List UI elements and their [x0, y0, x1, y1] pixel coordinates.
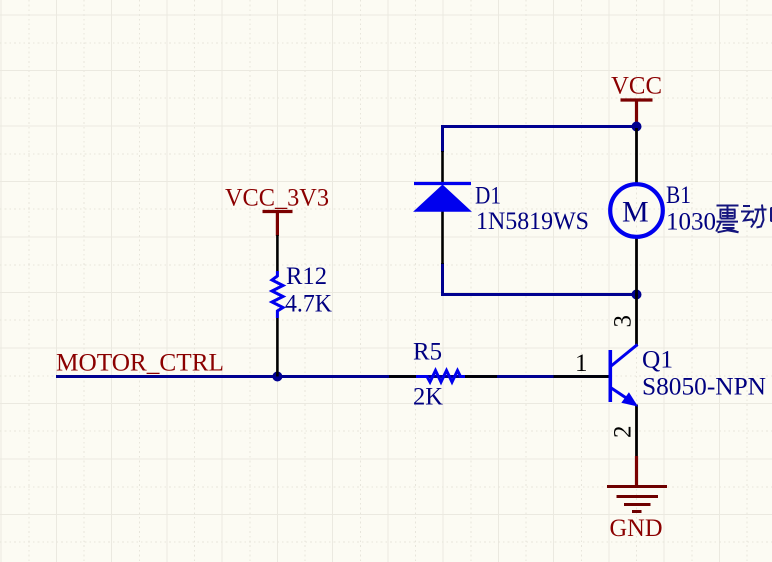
- svg-text:1: 1: [575, 350, 588, 377]
- resistor R12 body: [272, 271, 283, 318]
- diode D1 cathode bar: [414, 182, 471, 185]
- svg-text:D1: D1: [475, 183, 501, 210]
- ground GND bar 2: [617, 495, 659, 498]
- junction node at motor bottom rail: [632, 290, 642, 300]
- diode D1 pin 2 (cathode top): [441, 151, 444, 184]
- value CJK partial char ma (cut off): [771, 208, 772, 221]
- ground GND bar 3: [624, 503, 651, 506]
- resistor R5 pin 2 (right): [465, 375, 498, 378]
- junction node at R12/base wire: [272, 372, 282, 382]
- resistor R12 pin 2 (bottom): [276, 318, 279, 377]
- ground GND stem: [635, 456, 638, 487]
- wire MOTOR_CTRL horizontal net: [56, 375, 609, 378]
- svg-text:MOTOR_CTRL: MOTOR_CTRL: [56, 350, 224, 377]
- svg-text:VCC: VCC: [611, 73, 662, 100]
- power port VCC: [611, 73, 662, 129]
- junction node at VCC rail: [632, 122, 642, 132]
- value CJK char dong (of vibration): [741, 205, 767, 228]
- svg-text:B1: B1: [666, 182, 691, 209]
- svg-text:M: M: [622, 196, 649, 229]
- transistor Q1 emitter pin 2 wire: [635, 405, 638, 458]
- svg-text:R12: R12: [286, 263, 327, 290]
- diode D1 pin 1 (anode bottom): [441, 211, 444, 264]
- motor B1 pin 1 (top): [635, 128, 638, 185]
- transistor Q1 emitter line: [611, 388, 628, 399]
- svg-text:GND: GND: [610, 515, 663, 542]
- net label MOTOR_CTRL: [56, 350, 224, 377]
- svg-text:S8050-NPN: S8050-NPN: [642, 374, 766, 401]
- power port VCC_3V3: [225, 185, 329, 237]
- motor B1 circle: [610, 184, 663, 237]
- resistor R12 pin 1 (top): [276, 235, 279, 272]
- svg-text:R5: R5: [413, 339, 442, 366]
- transistor Q1 base pin 1 wire: [554, 375, 609, 378]
- ground GND bar 4: [632, 510, 642, 513]
- resistor R5 pin 1 (left): [389, 375, 417, 378]
- svg-text:2: 2: [610, 426, 637, 439]
- resistor R5 body: [416, 371, 465, 383]
- svg-text:VCC_3V3: VCC_3V3: [225, 185, 329, 212]
- svg-text:4.7K: 4.7K: [285, 291, 332, 318]
- svg-text:2K: 2K: [413, 384, 443, 411]
- diode D1 body triangle: [415, 186, 470, 212]
- svg-text:3: 3: [610, 315, 637, 328]
- svg-text:1030: 1030: [666, 209, 716, 236]
- transistor Q1 collector pin 3 wire: [635, 295, 638, 347]
- wire top rail from diode to VCC node: [443, 127, 637, 153]
- transistor Q1 emitter arrow: [623, 394, 637, 406]
- value CJK char zhen (vibration): [716, 206, 738, 233]
- svg-text:1N5819WS: 1N5819WS: [476, 208, 589, 235]
- motor B1 pin 2 (bottom): [635, 236, 638, 296]
- transistor Q1 collector line: [611, 345, 638, 367]
- svg-text:Q1: Q1: [642, 347, 673, 374]
- wire bottom rail from diode to motor node: [443, 263, 637, 295]
- transistor Q1 base bar: [608, 350, 612, 402]
- ground GND bar 1: [607, 485, 667, 488]
